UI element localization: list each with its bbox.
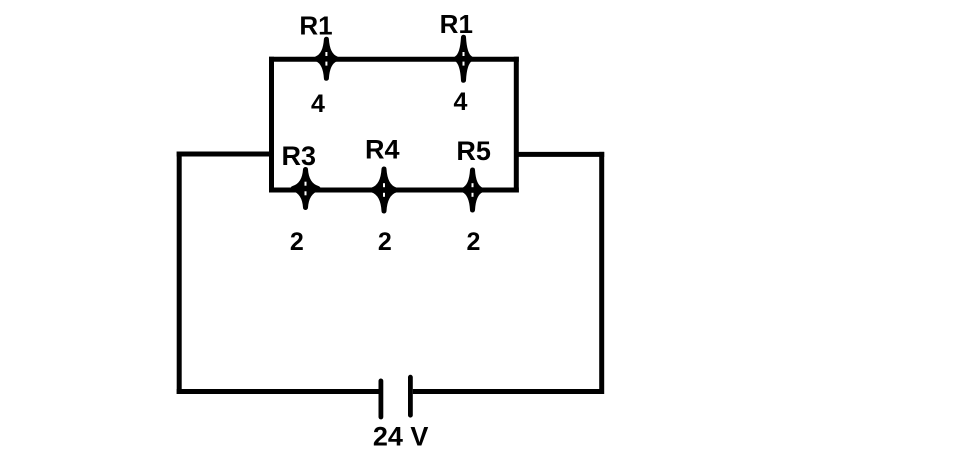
- value 2 (R4): [378, 228, 392, 256]
- svg-text:2: 2: [290, 228, 304, 256]
- wire right vertical: [599, 152, 604, 394]
- svg-text:R5: R5: [456, 136, 491, 166]
- resistor R4 (star symbol): [372, 169, 396, 211]
- label R3: [282, 141, 317, 171]
- svg-text:2: 2: [378, 228, 392, 256]
- svg-text:R1: R1: [440, 9, 473, 39]
- battery V1 (24 V cell plates): [381, 377, 411, 417]
- svg-text:4: 4: [311, 90, 325, 118]
- wire top-right connector: [516, 152, 604, 157]
- wire inner-rect right edge: [514, 57, 519, 193]
- value 24 V (battery): [373, 422, 429, 452]
- label R1 (right): [440, 9, 473, 39]
- resistor R1 (right star symbol): [456, 37, 471, 80]
- svg-text:R1: R1: [299, 11, 332, 41]
- value 2 (R5): [467, 228, 481, 256]
- wire bottom-left (to battery): [177, 389, 379, 394]
- label R1 (left): [299, 11, 332, 41]
- wire top-left connector: [177, 152, 272, 157]
- resistor R3 (star symbol): [293, 170, 318, 208]
- value 4 (left R1): [311, 90, 325, 118]
- svg-text:4: 4: [454, 88, 468, 116]
- label R5: [456, 136, 491, 166]
- svg-text:R4: R4: [365, 135, 400, 165]
- value 2 (R3): [290, 228, 304, 256]
- resistor R5 (star symbol): [463, 170, 481, 210]
- wire bottom-right (from battery): [413, 389, 604, 394]
- value 4 (right R1): [454, 88, 468, 116]
- svg-text:2: 2: [467, 228, 481, 256]
- wire inner-rect left edge: [269, 57, 274, 193]
- resistor R1 (left star symbol): [316, 39, 336, 78]
- wire left vertical: [177, 152, 182, 395]
- wire inner-rect top (R1 branch): [269, 57, 519, 62]
- label R4: [365, 135, 400, 165]
- svg-text:R3: R3: [282, 141, 317, 171]
- wire inner-rect bottom (R3 R4 R5 branch): [269, 188, 519, 193]
- svg-text:24 V: 24 V: [373, 422, 429, 452]
